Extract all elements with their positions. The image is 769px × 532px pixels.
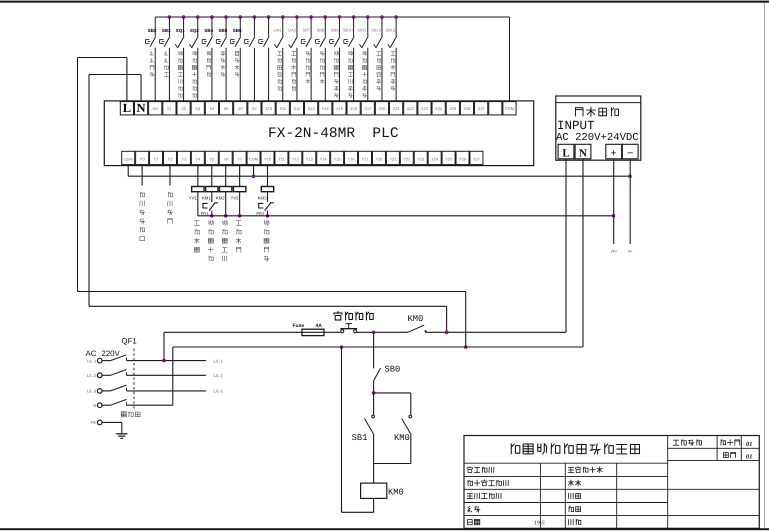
svg-text:KM1: KM1 xyxy=(202,196,211,201)
svg-text:L/L-1: L/L-1 xyxy=(87,358,97,363)
svg-text:QA1: QA1 xyxy=(274,28,283,33)
svg-text:4A: 4A xyxy=(316,323,323,329)
svg-text:SB5: SB5 xyxy=(219,28,228,33)
svg-text:−: − xyxy=(627,147,633,159)
svg-text:SB13: SB13 xyxy=(385,28,396,33)
svg-text:X5: X5 xyxy=(224,106,229,111)
svg-text:QA2: QA2 xyxy=(288,28,297,33)
svg-text:N: N xyxy=(579,147,587,159)
svg-text:0V: 0V xyxy=(628,250,633,254)
svg-text:SB3: SB3 xyxy=(162,28,171,33)
svg-text:Y7: Y7 xyxy=(237,156,242,161)
svg-text:Y24: Y24 xyxy=(431,156,439,161)
svg-text:X13: X13 xyxy=(308,106,315,111)
svg-text:Y6: Y6 xyxy=(223,156,228,161)
svg-text:L/L-2: L/L-2 xyxy=(214,373,224,378)
svg-text:AC 220V+24VDC: AC 220V+24VDC xyxy=(556,132,639,144)
svg-text:KM0: KM0 xyxy=(388,488,404,498)
svg-text:Y3: Y3 xyxy=(182,156,187,161)
svg-text:X17: X17 xyxy=(364,106,371,111)
svg-text:L/L-3: L/L-3 xyxy=(214,389,224,394)
svg-text:X2: X2 xyxy=(181,106,186,111)
svg-text:X7: X7 xyxy=(252,106,257,111)
svg-text:X6: X6 xyxy=(238,106,243,111)
svg-text:X15: X15 xyxy=(336,106,343,111)
svg-text:SB9: SB9 xyxy=(331,28,339,33)
svg-text:X10: X10 xyxy=(265,106,273,111)
svg-text:Y14: Y14 xyxy=(320,156,328,161)
svg-text:KM3: KM3 xyxy=(258,196,267,201)
svg-text:SB12: SB12 xyxy=(371,28,382,33)
svg-text:YV1: YV1 xyxy=(189,196,198,201)
svg-text:Y21: Y21 xyxy=(389,156,396,161)
svg-text:X0: X0 xyxy=(153,106,159,111)
svg-text:X1: X1 xyxy=(167,106,172,111)
svg-text:KM2: KM2 xyxy=(216,196,225,201)
svg-text:Y2: Y2 xyxy=(168,156,173,161)
svg-text:SB2: SB2 xyxy=(148,28,157,33)
svg-text:L/L-1: L/L-1 xyxy=(214,358,224,363)
svg-text:Y12: Y12 xyxy=(292,156,299,161)
svg-text:SB8: SB8 xyxy=(317,28,325,33)
svg-text:SQ1: SQ1 xyxy=(176,28,186,33)
svg-text:AC: AC xyxy=(86,349,97,358)
svg-text:L: L xyxy=(123,101,131,115)
svg-text:X12: X12 xyxy=(293,106,300,111)
svg-text:FX-2N-48MR PLC: FX-2N-48MR PLC xyxy=(268,126,399,142)
svg-text:X27: X27 xyxy=(478,106,485,111)
svg-text:Y10: Y10 xyxy=(264,156,272,161)
svg-text:COM: COM xyxy=(505,106,514,111)
svg-text:Y17: Y17 xyxy=(362,156,369,161)
svg-text:220V: 220V xyxy=(102,349,121,358)
svg-text:Y22: Y22 xyxy=(403,156,410,161)
svg-text:PE: PE xyxy=(91,420,97,425)
svg-text:SB7: SB7 xyxy=(303,28,311,33)
svg-text:SB1: SB1 xyxy=(352,433,368,443)
svg-text:SB10: SB10 xyxy=(343,28,354,33)
svg-text:KM0: KM0 xyxy=(408,314,424,324)
svg-text:X26: X26 xyxy=(464,106,471,111)
svg-text:X21: X21 xyxy=(393,106,400,111)
svg-text:Y15: Y15 xyxy=(334,156,341,161)
svg-text:Fuse: Fuse xyxy=(293,323,305,329)
svg-text:19-5: 19-5 xyxy=(534,521,545,527)
svg-text:Y0: Y0 xyxy=(140,156,146,161)
svg-text:X4: X4 xyxy=(210,106,216,111)
svg-text:COM0: COM0 xyxy=(124,157,133,161)
svg-text:X11: X11 xyxy=(279,106,286,111)
svg-text:SB4: SB4 xyxy=(204,28,213,33)
svg-text:X14: X14 xyxy=(322,106,330,111)
svg-text:SB0: SB0 xyxy=(385,365,401,375)
svg-text:+: + xyxy=(611,147,617,159)
svg-text:YV2: YV2 xyxy=(231,196,240,201)
svg-text:L/L-2: L/L-2 xyxy=(87,373,97,378)
svg-text:Y4: Y4 xyxy=(195,156,201,161)
svg-text:Y16: Y16 xyxy=(348,156,355,161)
svg-text:X23: X23 xyxy=(421,106,428,111)
svg-text:Y27: Y27 xyxy=(473,156,480,161)
svg-text:Y1: Y1 xyxy=(154,156,159,161)
svg-text:X22: X22 xyxy=(407,106,414,111)
svg-text:01: 01 xyxy=(746,453,752,460)
svg-text:L/L-3: L/L-3 xyxy=(87,389,97,394)
svg-text:X25: X25 xyxy=(449,106,456,111)
svg-text:L: L xyxy=(562,147,569,159)
svg-text:Y23: Y23 xyxy=(417,156,424,161)
svg-text:COM: COM xyxy=(249,156,258,161)
svg-text:N: N xyxy=(93,403,96,408)
svg-text:X20: X20 xyxy=(378,106,386,111)
svg-text:N: N xyxy=(137,101,146,115)
svg-text:X16: X16 xyxy=(350,106,357,111)
svg-text:01: 01 xyxy=(746,441,752,448)
svg-text:SQ2: SQ2 xyxy=(190,28,200,33)
svg-text:Y11: Y11 xyxy=(278,156,285,161)
svg-text:QF1: QF1 xyxy=(122,337,137,346)
svg-text:Y5: Y5 xyxy=(209,156,214,161)
svg-text:24V: 24V xyxy=(610,250,617,254)
svg-text:Y25: Y25 xyxy=(445,156,452,161)
svg-text:KM0: KM0 xyxy=(394,433,410,443)
svg-text:Y13: Y13 xyxy=(306,156,313,161)
svg-text:Y26: Y26 xyxy=(459,156,466,161)
svg-text:X3: X3 xyxy=(195,106,200,111)
svg-text:X24: X24 xyxy=(435,106,443,111)
svg-text:Y20: Y20 xyxy=(375,156,383,161)
svg-text:SB6: SB6 xyxy=(233,28,242,33)
svg-text:SB11: SB11 xyxy=(357,28,367,33)
